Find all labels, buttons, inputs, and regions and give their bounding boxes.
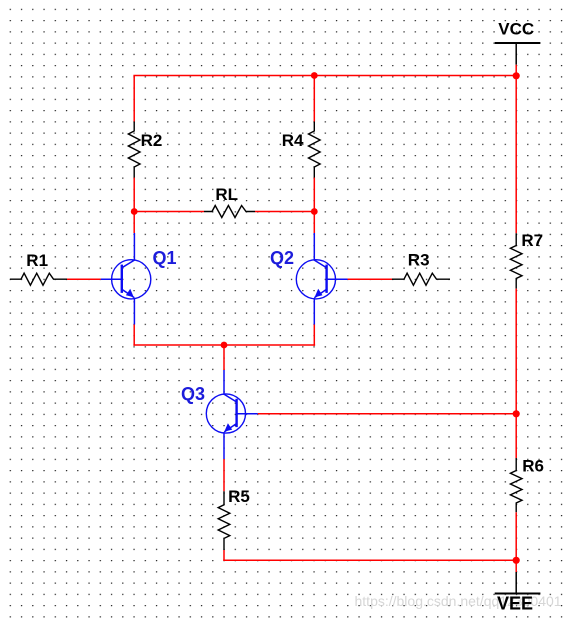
wire junction down to Q3 (red) [223,345,225,370]
wire R5 to bottom corner (red) [223,550,225,560]
node VCC rail junction [513,72,520,79]
svg-text:R6: R6 [522,456,544,475]
svg-text:Q1: Q1 [153,248,177,268]
resistor R4 [282,122,320,178]
svg-text:R7: R7 [521,231,543,250]
svg-text:RL: RL [215,185,238,204]
svg-text:R2: R2 [141,131,163,150]
resistor R6 [510,456,544,512]
wire left rail upper (top to R2) [133,76,135,122]
VCC power symbol [495,19,541,64]
node Q3 base junction on right rail [513,410,520,417]
resistor R5 [218,487,250,550]
svg-text:VCC: VCC [498,19,534,38]
svg-text:VEE: VEE [497,593,533,613]
wire top rail horizontal [133,75,517,77]
wire Q3 base to right rail (red) [258,413,517,415]
svg-text:Q2: Q2 [270,248,294,268]
node RL right junction [311,208,318,215]
wire Q2 emitter stub (blue) [313,298,315,325]
node bottom rail junction [513,557,520,564]
wire Q1 emitter stub (blue) [133,298,135,325]
svg-text:Q3: Q3 [181,384,205,404]
svg-text:R3: R3 [408,251,430,270]
node emitter junction [221,342,228,349]
resistor RL [204,185,255,217]
resistor R1 [10,251,67,285]
wire RL right segment [255,211,314,213]
wire right rail R7 to R6 (red) [515,289,517,458]
resistor R2 [128,122,162,178]
wire Q2 emitter down (red) [313,325,315,346]
svg-text:R1: R1 [26,251,48,270]
wire right rail R6 to VEE (red) [515,512,517,572]
wire Q2 base to R3 (red) [348,278,392,280]
node RL left junction [131,208,138,215]
svg-text:R5: R5 [228,487,250,506]
wire mid rail R4 to RL node [313,178,315,233]
wire Q3 emitter stub (blue) [223,432,225,459]
wire emitter coupling horizontal [133,344,315,346]
wire Q1 emitter down (red) [133,325,135,346]
VEE power symbol [495,572,541,613]
transistor Q2 [270,248,348,299]
wire RL left segment [134,211,204,213]
wire Q3 collector stub (blue) [223,370,225,395]
wire R1 to Q1 base [67,278,101,280]
transistor Q1 [101,248,177,299]
wire Q1 collector stub (blue) [133,233,135,261]
svg-text:R4: R4 [282,131,304,150]
transistor Q3 [181,384,258,433]
wire bottom rail horizontal [223,559,517,561]
node top rail junction at R4 branch [311,72,318,79]
wire Q2 collector stub (blue) [313,233,315,261]
wire Q3 emitter down (red) [223,459,225,491]
resistor R3 [392,251,450,286]
wire left rail R2 to RL node [133,178,135,233]
wire mid rail upper (top to R4) [313,76,315,122]
wire right rail VCC to R7 (red) [515,65,517,234]
resistor R7 [510,231,543,289]
